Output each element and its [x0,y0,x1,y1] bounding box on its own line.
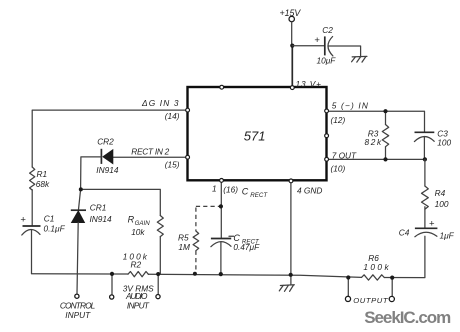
svg-text:100: 100 [437,138,451,148]
svg-text:(16): (16) [223,184,238,194]
svg-text:7 OUT: 7 OUT [332,150,357,160]
svg-text:(15): (15) [165,159,180,169]
svg-text:SeekIC.com: SeekIC.com [364,308,451,327]
svg-text:+15V: +15V [280,8,302,18]
svg-text:0.1μF: 0.1μF [44,223,66,233]
svg-text:82k: 82k [365,137,382,147]
svg-text:CR1: CR1 [90,203,107,213]
svg-text:R2: R2 [131,259,142,269]
svg-text:IN914: IN914 [90,214,113,224]
svg-text:INPUT: INPUT [127,300,150,310]
svg-text:C2: C2 [322,25,333,35]
svg-text:R4: R4 [435,188,446,198]
svg-text:C: C [242,186,249,196]
svg-text:R: R [128,215,135,225]
svg-text:R1: R1 [37,169,48,179]
svg-text:GAIN: GAIN [135,220,151,227]
svg-text:INPUT: INPUT [65,310,91,320]
svg-text:ΔG IN 3: ΔG IN 3 [141,98,179,108]
svg-text:C1: C1 [44,214,55,224]
svg-text:IN914: IN914 [96,165,119,175]
svg-text:1μF: 1μF [440,231,455,241]
svg-text:C4: C4 [399,228,410,238]
svg-text:RECT: RECT [250,192,268,199]
svg-text:1: 1 [212,183,217,193]
svg-text:4 GND: 4 GND [297,186,322,196]
svg-text:(14): (14) [165,111,180,121]
svg-text:(12): (12) [331,115,346,125]
svg-text:CONTROL: CONTROL [60,300,96,310]
svg-text:0.47μF: 0.47μF [233,242,260,252]
svg-text:571: 571 [244,128,266,143]
svg-text:13 V+: 13 V+ [296,79,322,89]
svg-text:10k: 10k [131,227,145,237]
svg-text:100: 100 [435,199,449,209]
svg-text:CR2: CR2 [97,137,114,147]
svg-text:OUTPUT: OUTPUT [353,296,389,305]
svg-text:1M: 1M [178,242,190,252]
svg-text:+: + [20,215,26,226]
svg-text:+: + [429,218,435,229]
svg-text:RECT IN 2: RECT IN 2 [131,147,169,157]
svg-text:10μF: 10μF [317,56,337,66]
svg-text:+: + [314,35,320,46]
svg-text:68k: 68k [36,179,50,189]
svg-text:(10): (10) [331,163,346,173]
